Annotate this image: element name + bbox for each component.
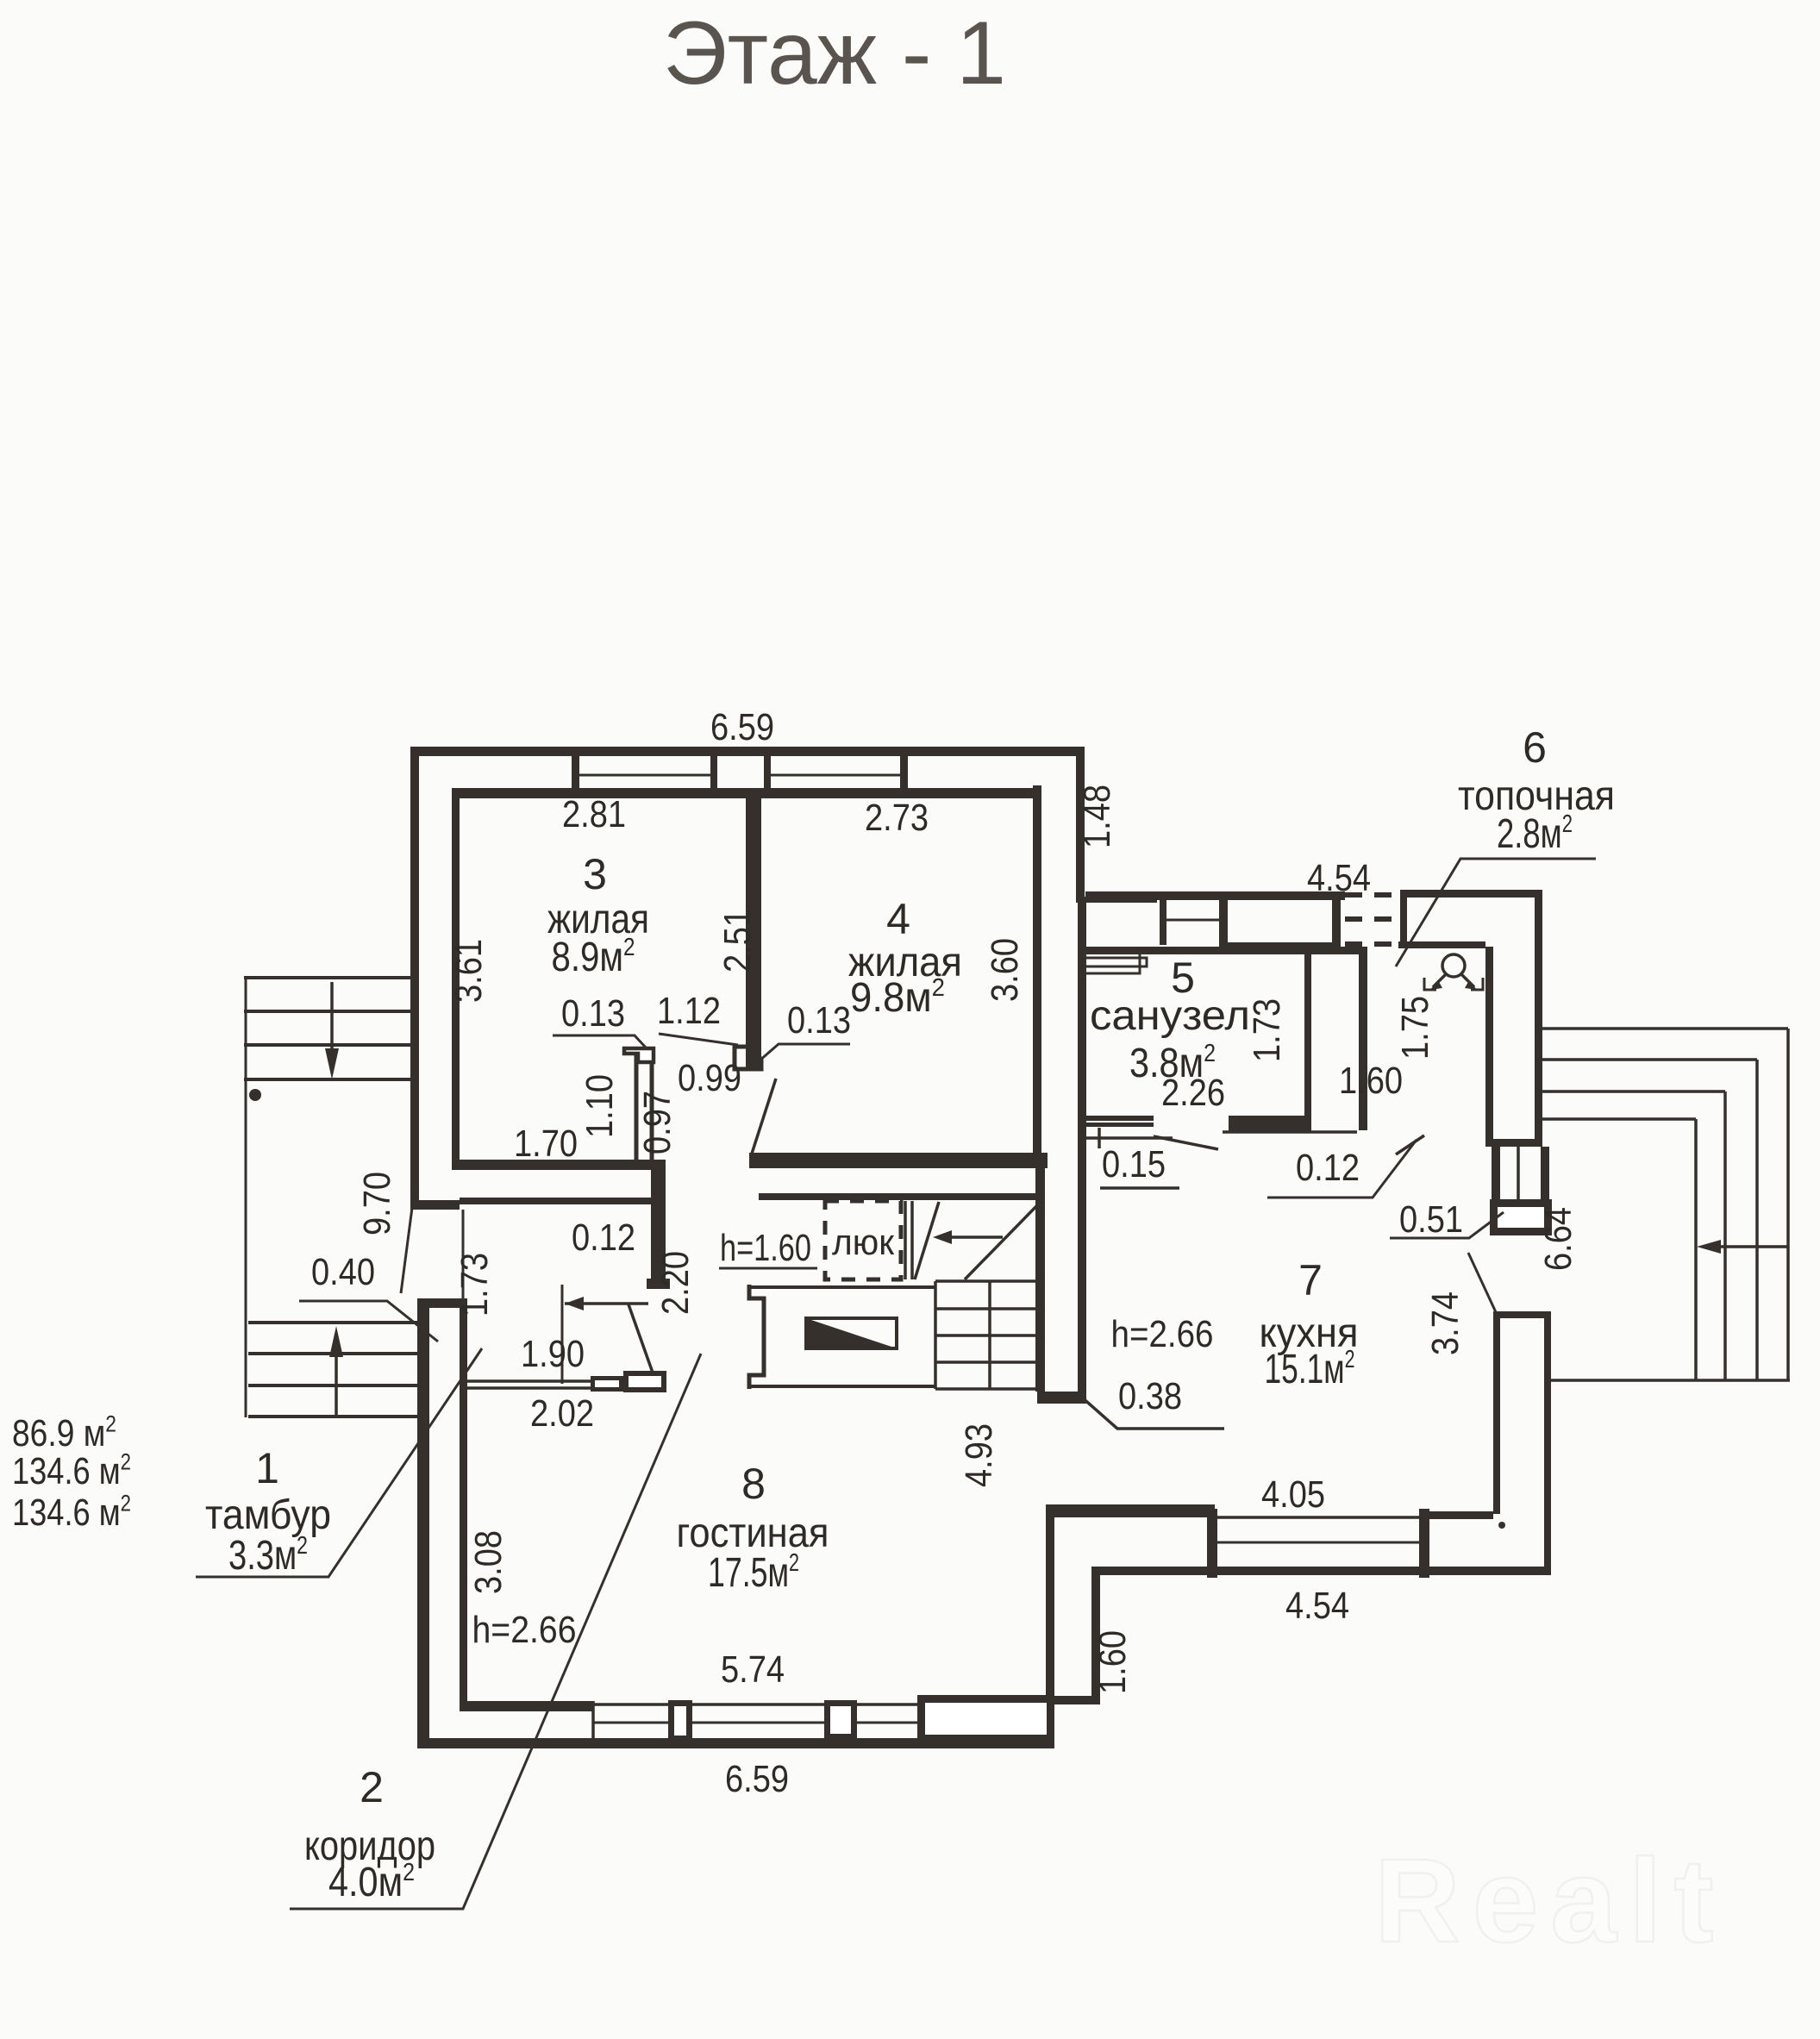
svg-text:6.64: 6.64 — [1537, 1207, 1579, 1271]
wall: corridor east wall — [651, 1170, 666, 1279]
wall: room 6 north-west stub — [1400, 890, 1407, 948]
dim arrow: corridor 1.90 line — [565, 1302, 648, 1305]
stairs: right bottom edge — [1551, 1379, 1790, 1382]
svg-text:Realt: Realt — [1374, 1835, 1725, 1967]
svg-text:h=2.66: h=2.66 — [472, 1609, 577, 1651]
svg-text:санузел: санузел — [1090, 993, 1250, 1039]
wall: room 4 south wall bottom line — [759, 1193, 1041, 1200]
wall: west outer line upper — [410, 747, 419, 1200]
wall: room 4 south wall top line — [749, 1153, 1048, 1168]
svg-text:1.60: 1.60 — [1091, 1630, 1134, 1694]
svg-text:9.70: 9.70 — [356, 1172, 398, 1235]
svg-text:86.9 м2: 86.9 м2 — [12, 1410, 116, 1454]
stairs: lower porch steps — [248, 1321, 417, 1324]
wall: room 6 west inner wall — [1485, 947, 1493, 1147]
wall: gostinaya south outer line — [417, 1738, 1054, 1748]
wall: room 6 east wall — [1535, 890, 1542, 1145]
window: top wall divider right — [900, 747, 908, 798]
wall: sanuzel top wall — [1078, 947, 1367, 954]
wall: kitchen east wall top cap — [1493, 1311, 1551, 1318]
stairs: right verticals — [1786, 1029, 1790, 1379]
wall: room 3 south wall top line — [452, 1160, 666, 1170]
wall: sanuzel south wall west segment — [1085, 1116, 1154, 1121]
wall: kitchen south wall top line east part — [1429, 1511, 1493, 1519]
window: south divider at 688 — [591, 1701, 595, 1738]
window: top wall window 2 mid line — [771, 774, 904, 777]
wall: room 3 south wall bottom line — [460, 1198, 659, 1204]
door jamb: corridor east wall foot — [647, 1279, 670, 1289]
wall: west inner line (room 3) — [452, 788, 460, 1165]
stairs: upper flight diagonal short — [915, 1202, 939, 1279]
wall: stairs east wall (spine west line) — [1035, 1168, 1045, 1392]
stairs: treads — [935, 1279, 1038, 1283]
stairs: porch left edge — [245, 978, 247, 1417]
svg-text:2.51: 2.51 — [716, 909, 759, 973]
svg-text:1.75: 1.75 — [1394, 996, 1436, 1060]
dim leader: 0.15 tick — [1098, 1128, 1101, 1148]
stairs: right winder tread 3 — [1542, 1090, 1725, 1093]
wall: kitchen east wall inner line — [1493, 1318, 1500, 1514]
svg-text:1.70: 1.70 — [514, 1123, 578, 1165]
svg-text:1.10: 1.10 — [579, 1074, 621, 1138]
mark: small dot in kitchen wall corner — [1498, 1522, 1505, 1529]
svg-text:тамбур: тамбур — [205, 1492, 331, 1538]
svg-text:1.73: 1.73 — [1246, 998, 1288, 1062]
svg-text:0.40: 0.40 — [311, 1251, 375, 1293]
svg-text:2: 2 — [360, 1763, 384, 1811]
window: band divider — [1160, 891, 1166, 945]
svg-text:4.93: 4.93 — [958, 1423, 1000, 1487]
niche: alcove left wall — [749, 1285, 764, 1389]
svg-text:7: 7 — [1298, 1256, 1323, 1304]
door swing: vestibule door — [1396, 1135, 1424, 1154]
svg-text:6.59: 6.59 — [725, 1758, 789, 1800]
wall: east inner line (room 4) going down to stairs — [1033, 785, 1041, 1168]
wall: spine east line from top corner to kitchen — [1078, 903, 1086, 1392]
stairs: upper flight diagonal long — [965, 1202, 1041, 1279]
window: kitchen south window west divider — [1207, 1509, 1217, 1578]
window: south window mid line 1 — [593, 1722, 670, 1724]
mark: dot on porch — [249, 1089, 261, 1101]
stairs: right arrow — [1716, 1245, 1788, 1248]
svg-text:3.08: 3.08 — [467, 1530, 510, 1594]
svg-text:0.51: 0.51 — [1399, 1198, 1463, 1241]
wall: band 4.54 outer top line — [1085, 891, 1345, 900]
door jamb: partition foot — [735, 1047, 761, 1069]
window: top wall window 1 mid line — [575, 774, 712, 777]
stairs: right winder tread 4 — [1542, 1117, 1696, 1121]
svg-text:0.12: 0.12 — [1296, 1147, 1360, 1189]
window: band window box west border — [1219, 891, 1228, 951]
wall: kitchen east wall outer line — [1544, 1318, 1551, 1569]
wall: double line right of lyuk — [904, 1201, 907, 1279]
svg-text:9.8м2: 9.8м2 — [850, 974, 945, 1021]
svg-text:3.60: 3.60 — [984, 938, 1026, 1002]
leader: koridor label — [290, 1354, 701, 1909]
niche: alcove bottom line — [749, 1385, 935, 1388]
stairs: upper porch arrow down — [330, 982, 334, 1060]
svg-text:1.48: 1.48 — [1076, 785, 1118, 848]
svg-text:люк: люк — [832, 1222, 895, 1262]
svg-text:1: 1 — [255, 1444, 279, 1492]
icon: boiler symbol circle with arrows — [1442, 954, 1465, 977]
wall: top outer line — [410, 747, 1085, 756]
wall: partition between rooms 3 and 4 — [746, 798, 761, 1069]
svg-text:5.74: 5.74 — [721, 1648, 785, 1691]
wall: top inner line, rooms 3-4 — [452, 788, 1037, 798]
wall: vestibule west wall — [1359, 954, 1367, 1130]
sill: vestibule south thin line — [1223, 1130, 1357, 1134]
wall: west inner line lower — [460, 1308, 467, 1703]
leader: dim 0.13 right — [759, 1044, 850, 1061]
svg-text:h=1.60: h=1.60 — [720, 1227, 811, 1269]
leader: dim 1.12 — [659, 1034, 738, 1045]
leader: 0.38 tick — [1081, 1397, 1224, 1429]
svg-text:3.3м2: 3.3м2 — [228, 1532, 308, 1579]
underline: h=1.60 — [719, 1267, 817, 1270]
stairs: upper porch steps — [244, 976, 415, 979]
door swing: corridor door leaf — [629, 1304, 653, 1373]
svg-text:1.90: 1.90 — [521, 1333, 585, 1375]
svg-text:0.38: 0.38 — [1118, 1375, 1182, 1417]
stairs: right winder tread 1 — [1542, 1027, 1788, 1030]
svg-text:3.74: 3.74 — [1424, 1292, 1467, 1355]
svg-text:134.6 м2: 134.6 м2 — [12, 1490, 131, 1534]
window: band mid thin line — [1160, 919, 1219, 922]
svg-text:0.97: 0.97 — [636, 1091, 679, 1154]
svg-text:8: 8 — [741, 1460, 766, 1508]
wall: sanuzel east wall — [1304, 954, 1311, 1123]
leader: dim 0.13 left — [553, 1035, 646, 1048]
fireplace: solid wedge — [806, 1318, 897, 1348]
wall: room 6 south wall — [1485, 1139, 1542, 1147]
wall: kitchen inner step corner — [1091, 1572, 1100, 1704]
door: dashed opening to topochnaya — [1345, 892, 1400, 898]
svg-text:15.1м2: 15.1м2 — [1265, 1346, 1355, 1392]
svg-text:0.13: 0.13 — [787, 999, 851, 1041]
wall: corridor south thin double line — [467, 1379, 593, 1383]
svg-text:6: 6 — [1523, 723, 1547, 772]
leader: tambur label — [196, 1348, 482, 1577]
stairs: tread centre divider — [988, 1281, 991, 1389]
wall: kitchen south wall top line west part — [1046, 1504, 1215, 1517]
window: kitchen south window mid line — [1217, 1542, 1419, 1544]
svg-text:3.61: 3.61 — [447, 939, 490, 1003]
window pier: south pier 2 — [828, 1704, 854, 1737]
window pier: top wall centre box — [710, 747, 717, 798]
window: south window mid line 2 — [690, 1722, 826, 1724]
dim tick: corridor vertical tick for 1.90 — [561, 1285, 564, 1384]
window: top wall divider left — [572, 747, 579, 798]
stairs: right winder tread 2 — [1542, 1058, 1757, 1061]
svg-text:4.54: 4.54 — [1285, 1585, 1349, 1627]
svg-text:6.59: 6.59 — [710, 706, 774, 748]
svg-text:0.15: 0.15 — [1102, 1143, 1166, 1185]
svg-text:4.0м2: 4.0м2 — [328, 1859, 415, 1905]
window: kitchen south window east divider — [1419, 1509, 1429, 1578]
door swing: room 4 door leaf — [752, 1079, 776, 1154]
door swing: sanuzel door leaf — [1154, 1136, 1218, 1149]
window: south window mid line 3 — [857, 1722, 917, 1724]
door jamb: thin line across west door opening — [462, 1210, 465, 1298]
svg-text:0.12: 0.12 — [572, 1217, 635, 1259]
svg-text:134.6 м2: 134.6 м2 — [12, 1448, 131, 1492]
leader: dim 0.40 and door leaf — [299, 1301, 438, 1342]
stairs: lower porch arrow up — [335, 1345, 338, 1415]
wall: thin partition with dim 0.97 — [635, 1050, 639, 1160]
dim leader: 0.15 line — [1085, 1136, 1173, 1140]
wall: sanuzel south wall east segment — [1229, 1116, 1311, 1131]
flue: chimney shaft lines — [1492, 1147, 1500, 1199]
svg-text:2.8м2: 2.8м2 — [1497, 810, 1573, 857]
wall: south-east corner outlined block — [922, 1699, 1051, 1739]
svg-text:2.26: 2.26 — [1161, 1072, 1225, 1114]
wall: west wall door-top cap — [410, 1200, 460, 1210]
svg-text:4: 4 — [886, 895, 910, 943]
door jamb: thin partition top cap — [624, 1048, 654, 1062]
svg-text:1.73: 1.73 — [453, 1253, 496, 1317]
door jamb: corridor door sill boxes — [593, 1379, 622, 1390]
fireplace: outline — [806, 1318, 897, 1348]
svg-text:17.5м2: 17.5м2 — [708, 1549, 799, 1596]
svg-text:2.02: 2.02 — [530, 1392, 594, 1435]
niche: alcove top line — [749, 1285, 935, 1289]
leader: 2.8 topochnaya label — [1396, 859, 1596, 966]
wall: west wall lower cap at 1506 — [417, 1298, 467, 1308]
svg-text:1.60: 1.60 — [1339, 1060, 1403, 1102]
hatch: lyuk dashed box — [825, 1201, 901, 1279]
svg-text:2.73: 2.73 — [865, 797, 929, 839]
dim leader: 0.15 underline — [1100, 1186, 1179, 1190]
svg-text:4.05: 4.05 — [1261, 1473, 1325, 1516]
svg-text:2.81: 2.81 — [562, 793, 626, 835]
svg-text:4.54: 4.54 — [1307, 857, 1371, 899]
leader: dim 0.51 — [1390, 1212, 1504, 1238]
wall: vestibule north inner line — [1398, 941, 1485, 948]
wall: east outer line of upper block — [1076, 747, 1085, 903]
chimney: 0.51 block — [1494, 1204, 1548, 1232]
svg-text:8.9м2: 8.9м2 — [552, 934, 635, 980]
svg-text:h=2.66: h=2.66 — [1111, 1313, 1214, 1355]
window pier: south pier 1 — [672, 1704, 690, 1739]
wall: kitchen south wall bottom line — [1091, 1567, 1551, 1575]
wall: gostinaya south inner line west part — [460, 1701, 593, 1711]
leader: dim 0.12 kitchen — [1267, 1140, 1417, 1198]
wall: outer jog to window band 4.54 — [1082, 897, 1157, 903]
window: band window box bottom line — [1219, 942, 1341, 951]
svg-text:Этаж - 1: Этаж - 1 — [663, 3, 1006, 103]
leader: 9.70 extension — [401, 1188, 415, 1293]
wall: west outer wall lower part — [417, 1298, 429, 1748]
leader: dim 3.74 — [1468, 1253, 1496, 1312]
svg-text:3: 3 — [583, 850, 607, 898]
wall: kitchen south-west step vertical — [1046, 1504, 1054, 1740]
door jamb: sanuzel north-west nested lines — [1086, 958, 1147, 966]
svg-text:0.99: 0.99 — [678, 1057, 741, 1099]
stairs: tread block left edge — [934, 1281, 937, 1389]
svg-text:2.20: 2.20 — [654, 1251, 697, 1315]
wall: room 6 north wall — [1400, 890, 1542, 898]
svg-text:0.13: 0.13 — [561, 992, 625, 1035]
wall: stairs east wall bottom cap — [1037, 1392, 1086, 1404]
svg-text:1.12: 1.12 — [657, 990, 721, 1032]
stairs: arrow to upper flight — [940, 1235, 1003, 1239]
window: band window box east border — [1332, 891, 1341, 951]
window: south window 1 top thin line — [593, 1703, 917, 1706]
window: kitchen south window top thin line — [1217, 1516, 1419, 1519]
